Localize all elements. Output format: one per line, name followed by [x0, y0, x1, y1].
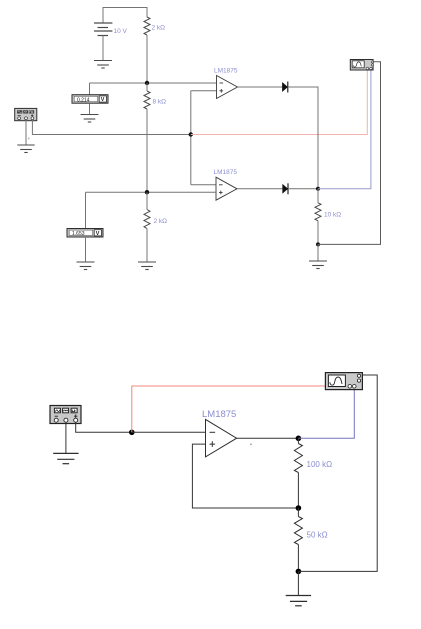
stray plus artifact near XFG1 — [28, 137, 30, 139]
wire R3 bottom to ground — [146, 229, 148, 263]
svg-text:8 kΩ: 8 kΩ — [153, 99, 167, 106]
wire op1 plus / op2 minus vertical — [190, 91, 192, 185]
svg-text:10 V: 10 V — [114, 28, 128, 35]
wire node D to oscilloscope channel B (blue) — [318, 70, 371, 189]
ground below voltmeter U3 — [77, 262, 95, 270]
wire op3 plus feedback — [192, 444, 298, 508]
wire node B to oscilloscope channel A (red) — [191, 70, 367, 135]
wire oscilloscope ground down to node E — [318, 62, 381, 245]
wire node H to R6 top — [297, 508, 299, 517]
svg-text:2 kΩ: 2 kΩ — [154, 218, 168, 225]
svg-text:100 kΩ: 100 kΩ — [307, 460, 333, 469]
svg-text:LM1875: LM1875 — [214, 68, 238, 75]
wire node A row to op-amp minus input — [90, 82, 217, 84]
battery V1 — [94, 23, 112, 36]
ground below node I — [286, 596, 311, 606]
svg-text:LM1875: LM1875 — [214, 169, 238, 176]
ground below node E — [309, 261, 327, 269]
oscilloscope XSC1 — [350, 60, 373, 71]
wire node A down to voltmeter U2 — [89, 83, 91, 95]
wire R4 bottom to node E — [317, 221, 319, 245]
node I junction — [296, 569, 302, 575]
wire XFG2 output to node F — [76, 422, 132, 432]
svg-text:50 kΩ: 50 kΩ — [307, 531, 328, 540]
svg-text:2 kΩ: 2 kΩ — [152, 25, 166, 32]
ground below XFG1 — [17, 145, 34, 153]
wire node F to oscilloscope channel A (red) — [132, 386, 350, 432]
diode D2 — [283, 183, 288, 194]
node G junction — [296, 436, 302, 442]
wire battery top to backbone — [103, 8, 147, 24]
resistor R6 50kΩ — [294, 517, 302, 545]
wire node C down to voltmeter U3 — [85, 192, 87, 229]
node B junction — [189, 132, 193, 136]
wire voltmeter U3 to ground — [85, 237, 87, 262]
wire node F to op3 minus input — [132, 431, 206, 433]
svg-text:V: V — [101, 97, 105, 103]
op-amp U1 LM1875 — [217, 76, 238, 99]
wire node C row to op2 plus input — [86, 191, 217, 193]
node D junction — [316, 187, 320, 191]
diode D1 — [282, 82, 287, 93]
wire node I to ground — [297, 571, 299, 595]
oscilloscope XSC2 — [325, 373, 362, 390]
stray designator dot — [250, 443, 252, 445]
wire op1 output to diode D1 — [238, 86, 283, 88]
wire diode D2 to node D — [288, 188, 318, 190]
resistor R1 2kΩ — [144, 17, 150, 35]
svg-text:1.653: 1.653 — [72, 231, 85, 237]
op-amp U4 LM1875 — [206, 419, 237, 457]
node E junction — [316, 242, 320, 246]
wire node G to R5 top — [297, 438, 299, 443]
wire node C to R3 top — [146, 192, 148, 209]
resistor R5 100kΩ — [294, 444, 302, 473]
wire voltmeter U2 to ground — [89, 103, 91, 114]
svg-text:0.214: 0.214 — [77, 97, 90, 103]
wire XFG2 common to ground — [65, 422, 67, 453]
voltmeter U2 0.214 V — [72, 95, 108, 104]
wire op2 output to diode D2 — [237, 188, 283, 190]
ground below battery — [94, 61, 112, 69]
resistor R4 10kΩ — [315, 203, 321, 221]
node H junction — [296, 505, 302, 511]
wire node G to oscilloscope channel B (blue) — [298, 388, 354, 438]
resistor R3 2kΩ — [144, 210, 150, 229]
op-amp U2 LM1875 — [216, 177, 237, 200]
ground below R3 — [138, 262, 156, 270]
wire oscilloscope ground down to node I — [298, 375, 377, 571]
wire R5 bottom to node H — [297, 473, 299, 509]
wire R6 bottom to node I — [297, 545, 299, 572]
ground below XFG2 — [53, 453, 78, 463]
wire battery to ground — [102, 36, 104, 61]
node F junction — [129, 430, 135, 436]
node A junction — [145, 81, 149, 85]
wire node D to R4 top — [317, 189, 319, 203]
wire R1 bottom to node A — [146, 35, 148, 83]
wire node E to ground — [317, 244, 319, 261]
wire op3 output to node G — [237, 437, 299, 439]
wire to op2 minus input — [191, 184, 216, 186]
ground below voltmeter U2 — [81, 115, 99, 123]
wire XFG1 common to ground — [25, 120, 27, 145]
voltmeter U3 1.653 V — [67, 229, 103, 238]
wire node A to R2 top — [146, 83, 148, 91]
wire XFG1 output to node B — [32, 120, 190, 135]
svg-text:LM1875: LM1875 — [202, 409, 236, 420]
node C junction — [145, 190, 149, 194]
svg-text:10 kΩ: 10 kΩ — [324, 212, 341, 219]
svg-text:V: V — [96, 231, 100, 237]
function generator XFG2 — [50, 406, 81, 424]
wire to op1 plus input — [191, 90, 217, 92]
function generator XFG1 — [15, 108, 37, 120]
resistor R2 8kΩ — [144, 91, 150, 109]
wire R2 bottom to node B — [146, 109, 148, 192]
wire diode D1 to right backbone — [288, 87, 318, 189]
